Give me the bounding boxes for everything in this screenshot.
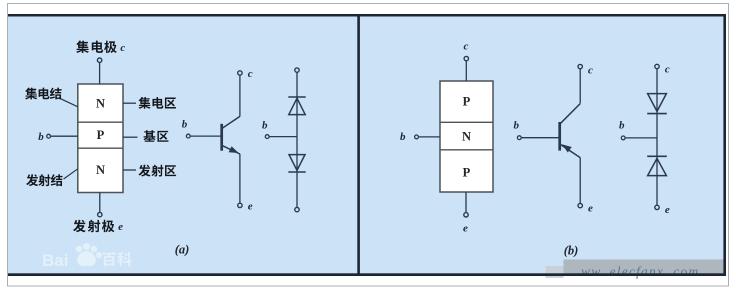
svg-text:e: e (588, 203, 593, 215)
diode D2 (b) emitter junction, cathode bar top (647, 155, 667, 157)
svg-text:P: P (463, 95, 471, 109)
vertical divider between panels (357, 14, 360, 276)
Q(b) base bar (558, 122, 561, 151)
dark top border of blue panel (8, 14, 726, 17)
dark bottom border of blue panel (8, 273, 726, 276)
svg-text:b: b (182, 119, 188, 131)
emitter junction line (b) (440, 149, 493, 151)
diode pair (b) vertical wire (656, 69, 658, 206)
label 发射结 with leader (26, 174, 38, 186)
label 基区 with dash (123, 136, 138, 138)
diode pair (b) : top node c (655, 64, 659, 68)
label 发射区 with dash (123, 169, 136, 171)
svg-text:c: c (665, 63, 670, 75)
svg-text:b: b (400, 131, 406, 143)
collector terminal wire (a) (99, 62, 101, 84)
svg-text:(a): (a) (175, 243, 190, 257)
label 集电结 with leader (25, 88, 37, 100)
baidu baike watermark (faint) (42, 243, 132, 270)
collector terminal node c (a) (97, 58, 101, 62)
svg-text:e: e (665, 204, 670, 216)
svg-text:e: e (248, 201, 253, 213)
emitter terminal wire (a) (99, 193, 101, 213)
diode D1 (b) collector junction, anode top (648, 94, 667, 112)
emitter terminal e (b) (465, 192, 467, 213)
diode D2 (a) emitter junction, anode top (289, 155, 305, 171)
dark right border of blue panel (723, 14, 726, 276)
svg-text:N: N (462, 130, 471, 144)
structure diagram box (b) PNP (440, 81, 493, 192)
svg-text:e: e (463, 223, 468, 235)
svg-text:N: N (96, 97, 105, 111)
svg-text:b: b (38, 131, 44, 143)
label 发射极 e (73, 220, 86, 233)
svg-text:ww. elecfanx. com: ww. elecfanx. com (581, 264, 699, 279)
svg-text:c: c (248, 68, 253, 80)
collector junction line (b) (440, 121, 493, 123)
Q(a) emitter lead with arrow (222, 145, 240, 154)
diode pair (a) : top node (295, 68, 299, 72)
Q(b) emitter lead with inward arrow (560, 144, 581, 158)
collector junction line (a) (78, 121, 123, 123)
base wire (a structure) (51, 135, 78, 137)
svg-text:c: c (120, 42, 125, 54)
diode pair (a) vertical wire (296, 72, 298, 207)
svg-text:P: P (463, 165, 471, 179)
svg-text:e: e (118, 221, 123, 233)
label 集电区 with dash (123, 102, 136, 104)
svg-text:c: c (588, 64, 593, 76)
Q(b) collector lead (560, 104, 581, 125)
svg-text:b: b (619, 120, 625, 132)
svg-text:N: N (96, 163, 105, 177)
svg-text:c: c (464, 40, 469, 52)
emitter junction line (a) (78, 147, 123, 149)
svg-text:Bai: Bai (42, 251, 68, 270)
label 集电极 c (76, 41, 89, 53)
svg-text:(b): (b) (564, 243, 579, 257)
emitter terminal node e (a) (98, 212, 102, 216)
Q(a) base bar (220, 124, 223, 151)
svg-text:b: b (514, 120, 520, 132)
svg-text:P: P (97, 128, 105, 142)
svg-text:b: b (262, 120, 268, 132)
gray watermark band bottom right (546, 266, 564, 278)
diode D1 (a) collector junction, cathode bar top (288, 96, 305, 98)
Q(a) collector lead (222, 116, 240, 128)
structure diagram box (a) NPN (78, 84, 123, 193)
diode pair (b) bottom node e (655, 205, 659, 209)
diode pair (a) bottom node (295, 207, 299, 211)
